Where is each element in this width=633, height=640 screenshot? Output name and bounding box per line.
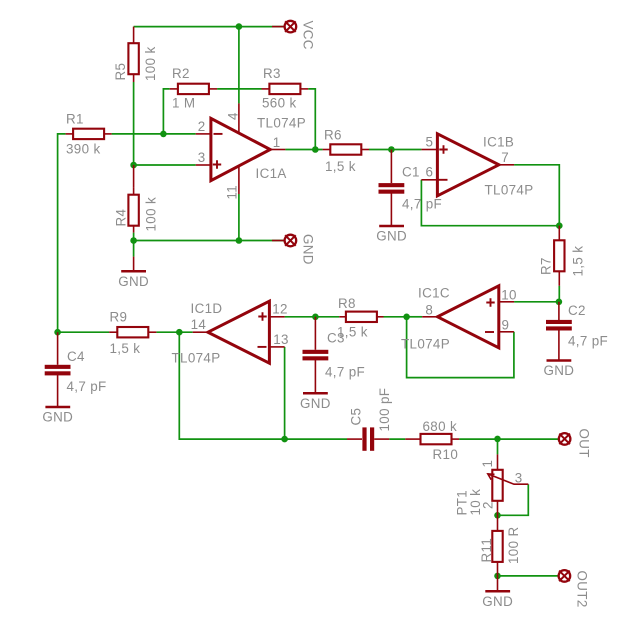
svg-text:1: 1 bbox=[480, 460, 495, 468]
svg-text:R6: R6 bbox=[324, 128, 342, 143]
svg-text:3: 3 bbox=[198, 150, 206, 165]
svg-text:8: 8 bbox=[425, 303, 433, 318]
svg-text:C1: C1 bbox=[402, 165, 420, 180]
svg-text:GND: GND bbox=[482, 594, 513, 609]
svg-text:4,7 pF: 4,7 pF bbox=[67, 379, 107, 394]
svg-text:1,5 k: 1,5 k bbox=[110, 341, 141, 356]
svg-text:4: 4 bbox=[226, 112, 241, 120]
svg-text:GND: GND bbox=[42, 410, 73, 425]
svg-text:C4: C4 bbox=[67, 349, 85, 364]
svg-text:100 pF: 100 pF bbox=[377, 388, 392, 432]
svg-text:OUT: OUT bbox=[577, 429, 592, 458]
svg-text:R7: R7 bbox=[539, 257, 554, 275]
svg-text:R8: R8 bbox=[338, 296, 356, 311]
svg-text:390 k: 390 k bbox=[66, 142, 101, 157]
svg-text:9: 9 bbox=[502, 318, 510, 333]
svg-text:4,7 pF: 4,7 pF bbox=[325, 365, 365, 380]
svg-text:100 k: 100 k bbox=[144, 197, 159, 232]
svg-text:IC1B: IC1B bbox=[483, 135, 514, 150]
svg-text:10: 10 bbox=[501, 288, 517, 303]
svg-text:12: 12 bbox=[272, 302, 288, 317]
svg-text:2: 2 bbox=[198, 119, 206, 134]
svg-text:4,7 pF: 4,7 pF bbox=[402, 197, 442, 212]
svg-text:2: 2 bbox=[481, 501, 496, 509]
svg-text:R4: R4 bbox=[114, 208, 129, 226]
svg-text:GND: GND bbox=[376, 229, 407, 244]
svg-text:R10: R10 bbox=[433, 447, 459, 462]
svg-text:GND: GND bbox=[543, 363, 574, 378]
svg-text:R1: R1 bbox=[66, 112, 84, 127]
svg-text:VCC: VCC bbox=[301, 21, 316, 50]
svg-text:R3: R3 bbox=[263, 66, 281, 81]
svg-text:1: 1 bbox=[273, 135, 281, 150]
svg-text:100 k: 100 k bbox=[143, 46, 158, 81]
svg-text:R11: R11 bbox=[479, 538, 494, 563]
svg-text:R2: R2 bbox=[172, 66, 190, 81]
svg-text:GND: GND bbox=[300, 396, 331, 411]
svg-text:TL074P: TL074P bbox=[172, 351, 221, 366]
svg-text:GND: GND bbox=[118, 274, 149, 289]
svg-text:TL074P: TL074P bbox=[401, 337, 450, 352]
svg-text:C2: C2 bbox=[568, 303, 586, 318]
svg-text:C5: C5 bbox=[349, 408, 364, 426]
svg-text:GND: GND bbox=[301, 234, 316, 265]
svg-text:6: 6 bbox=[425, 165, 433, 180]
svg-text:1,5 k: 1,5 k bbox=[325, 159, 356, 174]
svg-text:IC1D: IC1D bbox=[191, 301, 223, 316]
svg-text:3: 3 bbox=[515, 470, 523, 485]
svg-text:R5: R5 bbox=[113, 63, 128, 81]
svg-text:11: 11 bbox=[225, 185, 240, 200]
svg-text:14: 14 bbox=[191, 317, 207, 332]
svg-text:680 k: 680 k bbox=[423, 419, 458, 434]
svg-text:1,5 k: 1,5 k bbox=[571, 246, 586, 277]
svg-text:TL074P: TL074P bbox=[257, 116, 306, 131]
svg-text:4,7 pF: 4,7 pF bbox=[568, 334, 608, 349]
svg-text:560 k: 560 k bbox=[262, 96, 297, 111]
svg-text:13: 13 bbox=[273, 332, 289, 347]
svg-text:5: 5 bbox=[425, 135, 433, 150]
svg-text:TL074P: TL074P bbox=[485, 183, 534, 198]
svg-text:100 R: 100 R bbox=[506, 527, 521, 564]
svg-text:7: 7 bbox=[501, 150, 509, 165]
svg-text:OUT2: OUT2 bbox=[575, 571, 590, 608]
svg-text:IC1C: IC1C bbox=[418, 286, 450, 301]
svg-text:C3: C3 bbox=[327, 331, 345, 346]
svg-text:IC1A: IC1A bbox=[256, 166, 287, 181]
svg-text:1 M: 1 M bbox=[172, 96, 195, 111]
svg-text:R9: R9 bbox=[110, 310, 128, 325]
